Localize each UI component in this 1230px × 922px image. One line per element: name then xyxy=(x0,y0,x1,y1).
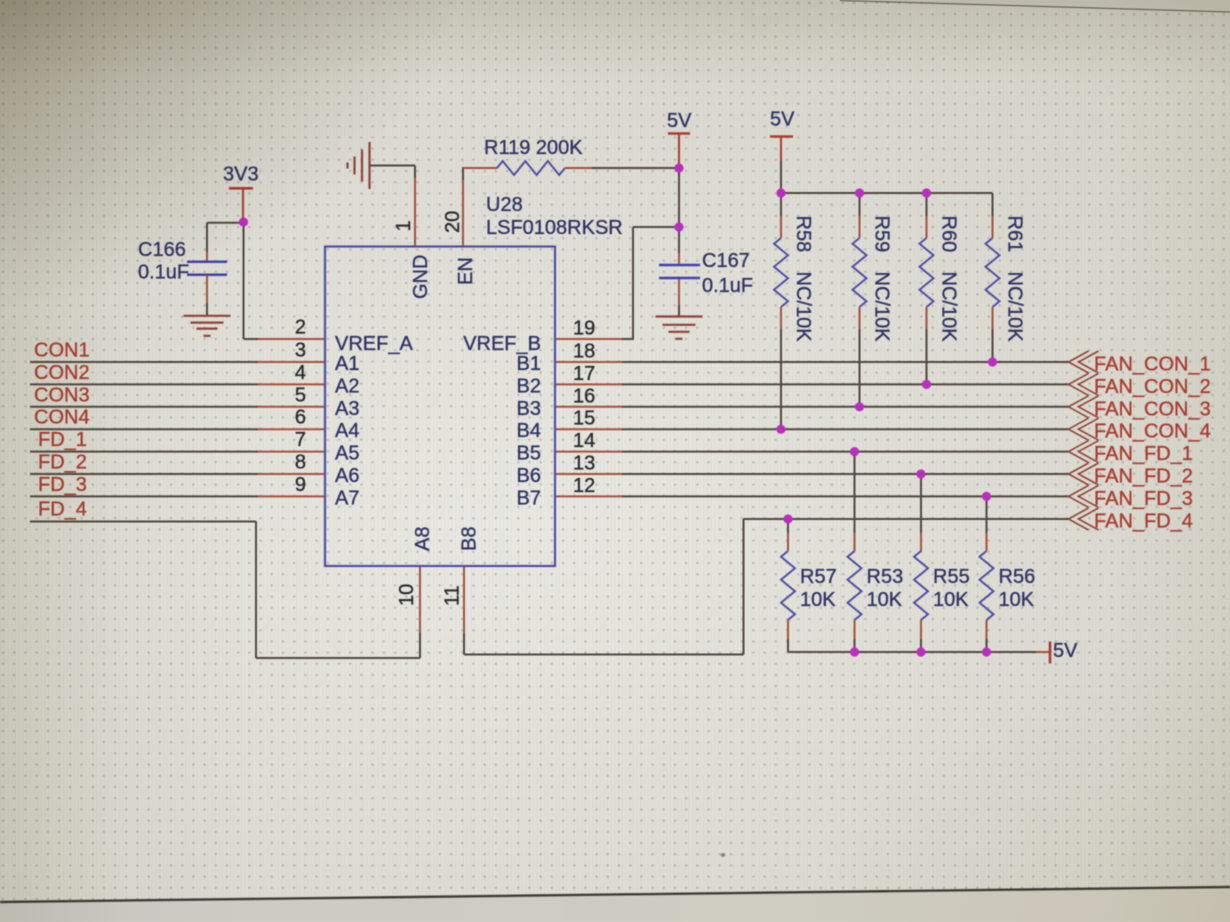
svg-text:20: 20 xyxy=(442,211,464,233)
svg-text:FAN_CON_2: FAN_CON_2 xyxy=(1094,376,1211,398)
svg-text:A5: A5 xyxy=(335,443,359,465)
svg-text:FAN_FD_1: FAN_FD_1 xyxy=(1094,443,1193,465)
svg-text:5: 5 xyxy=(295,384,306,406)
svg-text:9: 9 xyxy=(295,474,306,496)
svg-text:VREF_B: VREF_B xyxy=(463,333,541,355)
svg-text:C166: C166 xyxy=(138,239,186,261)
svg-text:NC/10K: NC/10K xyxy=(792,272,814,343)
svg-text:6: 6 xyxy=(295,407,306,429)
svg-text:17: 17 xyxy=(573,363,595,385)
svg-text:R53: R53 xyxy=(867,566,904,588)
svg-text:0.1uF: 0.1uF xyxy=(138,262,189,284)
svg-text:FD_1: FD_1 xyxy=(38,429,87,451)
svg-text:B8: B8 xyxy=(459,527,481,551)
svg-text:R61: R61 xyxy=(1004,216,1026,253)
svg-text:FAN_FD_3: FAN_FD_3 xyxy=(1094,488,1193,510)
svg-text:10K: 10K xyxy=(933,589,969,611)
svg-text:NC/10K: NC/10K xyxy=(871,272,893,343)
svg-text:FAN_CON_4: FAN_CON_4 xyxy=(1094,421,1211,443)
svg-text:FD_3: FD_3 xyxy=(38,474,87,496)
svg-text:8: 8 xyxy=(295,452,306,474)
svg-text:19: 19 xyxy=(573,318,595,340)
svg-text:FAN_CON_3: FAN_CON_3 xyxy=(1094,398,1211,420)
svg-text:13: 13 xyxy=(573,453,595,475)
svg-text:0.1uF: 0.1uF xyxy=(702,275,753,297)
svg-text:B3: B3 xyxy=(517,398,541,420)
svg-text:10K: 10K xyxy=(999,589,1035,611)
svg-text:16: 16 xyxy=(573,385,595,407)
svg-text:15: 15 xyxy=(573,408,595,430)
svg-text:CON3: CON3 xyxy=(34,384,90,406)
svg-text:11: 11 xyxy=(442,585,464,606)
svg-text:R119 200K: R119 200K xyxy=(484,137,583,159)
svg-text:A6: A6 xyxy=(335,465,359,487)
svg-text:B6: B6 xyxy=(517,465,541,487)
svg-text:B2: B2 xyxy=(517,375,541,397)
svg-text:1: 1 xyxy=(393,220,415,231)
svg-text:FD_2: FD_2 xyxy=(38,452,87,474)
svg-text:U28: U28 xyxy=(486,194,523,216)
svg-text:5V: 5V xyxy=(770,109,795,131)
svg-text:B1: B1 xyxy=(517,353,541,375)
svg-text:R58: R58 xyxy=(792,216,814,253)
svg-text:CON4: CON4 xyxy=(34,407,90,429)
svg-text:CON2: CON2 xyxy=(34,362,90,384)
svg-text:B4: B4 xyxy=(517,420,541,442)
svg-text:FAN_FD_4: FAN_FD_4 xyxy=(1094,511,1193,533)
svg-text:R56: R56 xyxy=(999,566,1036,588)
svg-text:12: 12 xyxy=(573,475,595,497)
svg-text:5V: 5V xyxy=(667,110,692,132)
svg-text:14: 14 xyxy=(573,430,595,452)
svg-text:10K: 10K xyxy=(867,589,903,611)
svg-text:3: 3 xyxy=(295,340,306,362)
svg-text:FD_4: FD_4 xyxy=(38,499,87,521)
svg-text:FAN_FD_2: FAN_FD_2 xyxy=(1094,466,1193,488)
svg-text:FAN_CON_1: FAN_CON_1 xyxy=(1094,354,1211,376)
svg-text:A8: A8 xyxy=(412,527,434,551)
svg-text:CON1: CON1 xyxy=(34,340,90,362)
svg-text:B5: B5 xyxy=(517,443,541,465)
svg-text:LSF0108RKSR: LSF0108RKSR xyxy=(486,217,623,239)
svg-text:7: 7 xyxy=(295,429,306,451)
svg-text:NC/10K: NC/10K xyxy=(938,272,960,343)
svg-text:3V3: 3V3 xyxy=(223,164,259,186)
svg-text:A7: A7 xyxy=(335,487,359,509)
svg-text:R60: R60 xyxy=(938,216,960,253)
svg-text:A2: A2 xyxy=(335,375,359,397)
svg-text:GND: GND xyxy=(410,255,432,299)
svg-text:R55: R55 xyxy=(933,566,970,588)
svg-text:5V: 5V xyxy=(1053,640,1078,662)
svg-text:10: 10 xyxy=(396,584,418,606)
svg-text:VREF_A: VREF_A xyxy=(335,333,413,355)
svg-text:C167: C167 xyxy=(702,250,750,272)
svg-text:B7: B7 xyxy=(517,487,541,509)
svg-text:18: 18 xyxy=(573,341,595,363)
svg-text:A4: A4 xyxy=(335,420,359,442)
svg-text:R57: R57 xyxy=(800,566,837,588)
svg-text:NC/10K: NC/10K xyxy=(1004,272,1026,343)
svg-text:R59: R59 xyxy=(871,216,893,253)
svg-text:10K: 10K xyxy=(800,589,836,611)
svg-text:A1: A1 xyxy=(335,353,359,375)
svg-text:4: 4 xyxy=(295,362,306,384)
svg-text:EN: EN xyxy=(455,257,477,285)
svg-text:2: 2 xyxy=(295,317,306,339)
svg-text:A3: A3 xyxy=(335,398,359,420)
